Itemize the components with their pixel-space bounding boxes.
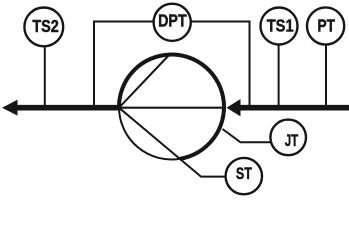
instrument bubble JT — [270, 120, 306, 156]
svg-text:JT: JT — [285, 132, 299, 150]
pump P1 impeller chord (lower) + ST leader — [119, 108, 226, 177]
instrument bubble TS2 — [24, 8, 63, 47]
instrument bubble TS1 — [261, 8, 298, 45]
instrument bubble ST — [226, 158, 262, 194]
wire: pump axis thin line — [119, 107, 226, 109]
pipe: inlet line (right, thick) — [240, 105, 349, 111]
svg-text:ST: ST — [236, 164, 252, 183]
wire: DPT left tap (horizontal + vertical to suction pipe) — [94, 22, 154, 107]
arrowhead: flow into pump (right) — [227, 99, 241, 116]
pipe: outlet line (left, thick) — [16, 105, 121, 111]
wire: JT leader — [223, 129, 272, 142]
svg-text:PT: PT — [317, 16, 335, 36]
instrument bubble DPT — [154, 4, 191, 41]
svg-text:TS1: TS1 — [267, 16, 294, 36]
pump P1 impeller chord (upper) — [119, 53, 171, 108]
wire: TS1 stem — [278, 45, 280, 106]
instrument bubble PT — [307, 7, 344, 44]
svg-text:DPT: DPT — [158, 11, 187, 31]
wire: TS2 stem — [44, 46, 46, 106]
svg-text:TS2: TS2 — [32, 16, 59, 36]
pump P1 casing circle (thin lower-left arc) — [119, 107, 180, 159]
arrowhead: flow out (left) — [2, 100, 18, 116]
wire: DPT right tap (horizontal + vertical to discharge pipe) — [191, 22, 250, 107]
wire: PT stem — [325, 45, 327, 106]
pump P1 casing circle (thick major arc) — [119, 54, 224, 158]
